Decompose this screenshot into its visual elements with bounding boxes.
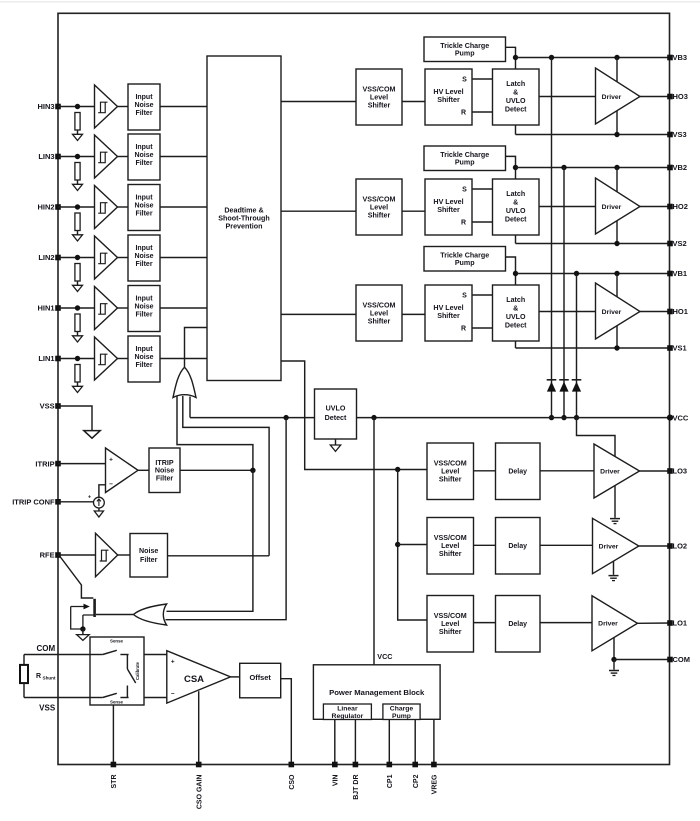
- svg-text:COM: COM: [37, 644, 56, 653]
- svg-text:Level: Level: [441, 542, 459, 550]
- wire LO bus to LO2 shifter: [398, 544, 427, 546]
- pin LIN2: [55, 255, 61, 261]
- svg-text:VIN: VIN: [332, 775, 339, 787]
- ground arrow HIN1: [73, 336, 83, 342]
- ground arrow HIN2: [73, 235, 83, 241]
- wire S ch2: [472, 188, 493, 190]
- svg-text:Input: Input: [135, 144, 153, 151]
- svg-text:CP2: CP2: [413, 774, 420, 788]
- pin COM right: [667, 657, 673, 663]
- wire resistor to arrow HIN2: [77, 231, 79, 235]
- svg-text:LO3: LO3: [673, 467, 688, 476]
- wire bootstrap line ch3: [551, 58, 553, 418]
- svg-text:Filter: Filter: [135, 362, 152, 369]
- wire VCC to power block: [373, 418, 375, 665]
- ground arrow LIN2: [73, 285, 83, 291]
- wire VSS pin: [58, 406, 92, 431]
- pin VB1: [667, 271, 673, 277]
- wire delay to driver LO2: [540, 544, 593, 546]
- svg-text:VCC: VCC: [377, 652, 392, 661]
- svg-text:UVLO: UVLO: [326, 405, 346, 413]
- deadtime and shoot-through prevention block: [207, 56, 281, 381]
- vss/com level shifter HS ch3: [356, 69, 402, 125]
- svg-text:Filter: Filter: [135, 160, 152, 167]
- svg-text:UVLO: UVLO: [506, 97, 526, 105]
- linear regulator block: [323, 704, 371, 720]
- offset block: [240, 663, 281, 698]
- ground arrow LIN1: [73, 386, 83, 392]
- wire LO1 driver to COM: [613, 638, 615, 660]
- node HIN2 junction: [75, 204, 80, 209]
- svg-text:ITRIP CONF: ITRIP CONF: [12, 498, 55, 507]
- svg-text:−: −: [109, 481, 113, 488]
- wire resistor to arrow LIN2: [77, 281, 79, 285]
- wire driver to pin LO2: [639, 545, 670, 547]
- svg-text:VB2: VB2: [673, 163, 688, 172]
- svg-text:Charge: Charge: [390, 705, 414, 712]
- faint page edge line: [0, 1, 700, 3]
- vss/com level shifter LO3: [427, 443, 474, 500]
- node bootstrap diode on VCC ch2: [561, 415, 566, 420]
- svg-text:RFE: RFE: [40, 551, 55, 560]
- driver HS ch3: [596, 68, 641, 124]
- wire trickle pump output ch1: [506, 257, 516, 285]
- node trickle/latch on VB2: [513, 165, 518, 170]
- svg-text:BJT DR: BJT DR: [353, 775, 360, 800]
- svg-text:HO1: HO1: [673, 307, 688, 316]
- pin RFE: [55, 552, 61, 558]
- latch and uvlo detect ch1: [493, 285, 540, 341]
- driver HS ch2: [596, 178, 641, 234]
- wire sense block to STR: [112, 705, 114, 765]
- svg-text:Shifter: Shifter: [437, 96, 460, 104]
- node diode line on VB2: [561, 165, 566, 170]
- node driver return on VS1: [614, 345, 619, 350]
- svg-text:Pump: Pump: [455, 158, 475, 166]
- wire LIN3 pin to buffer: [58, 156, 95, 158]
- node diode line on VB3: [549, 55, 554, 60]
- wire trickle pump output ch3: [506, 47, 516, 69]
- node LO bus top: [395, 467, 400, 472]
- net VSS sense wire: [24, 697, 90, 699]
- svg-text:Driver: Driver: [599, 543, 619, 550]
- svg-text:Pump: Pump: [455, 259, 475, 267]
- wire S ch3: [472, 78, 493, 80]
- wire S ch1: [472, 294, 493, 296]
- wire rfe-filter to or1: [183, 396, 269, 556]
- schmitt buffer HIN2: [95, 186, 118, 229]
- calibrate switch: [126, 655, 128, 670]
- IC boundary box: [58, 13, 670, 764]
- svg-text:Noise: Noise: [134, 102, 153, 109]
- svg-text:Shifter: Shifter: [437, 206, 460, 214]
- node mosfet source: [80, 626, 85, 631]
- node HIN1 junction: [75, 305, 80, 310]
- rfe noise filter block: [130, 534, 168, 578]
- node driver supply on VB1: [614, 271, 619, 276]
- node LIN1 junction: [75, 356, 80, 361]
- svg-text:Driver: Driver: [602, 309, 622, 316]
- resistor pulldown LIN2: [75, 264, 80, 282]
- node LIN3 junction: [75, 154, 80, 159]
- wire driver to pin LO3: [640, 470, 671, 472]
- vss/com level shifter LO2: [427, 518, 474, 575]
- wire filter to deadtime HIN1: [160, 307, 207, 309]
- schmitt buffer LIN1: [95, 337, 118, 380]
- wire trickle pump output ch2: [506, 156, 516, 179]
- svg-text:HO3: HO3: [673, 92, 688, 101]
- bootstrap diode ch1: [572, 379, 582, 381]
- wire LIN2 pin to buffer: [58, 257, 95, 259]
- switch sense bottom: [90, 697, 103, 699]
- vss/com level shifter LO1: [427, 596, 474, 653]
- svg-text:&: &: [513, 199, 518, 207]
- svg-text:LIN2: LIN2: [38, 253, 54, 262]
- svg-text:HIN3: HIN3: [38, 102, 55, 111]
- svg-text:Filter: Filter: [135, 211, 152, 218]
- pin LO2: [667, 543, 673, 549]
- switch sense top: [90, 654, 103, 656]
- op-amp CSA: [167, 651, 231, 703]
- wire driver supply ch2: [616, 168, 618, 244]
- wire sense to csa minus: [144, 697, 167, 699]
- svg-text:VB3: VB3: [673, 53, 688, 62]
- svg-text:Latch: Latch: [506, 80, 525, 88]
- wire driver supply ch1: [616, 274, 618, 349]
- delay block LO2: [496, 518, 541, 575]
- svg-text:UVLO: UVLO: [506, 207, 526, 215]
- svg-text:Linear: Linear: [337, 705, 358, 712]
- svg-text:R: R: [36, 673, 41, 680]
- wire latch bottom to VS3: [515, 125, 517, 135]
- svg-text:+: +: [171, 659, 175, 666]
- svg-text:LIN3: LIN3: [38, 152, 54, 161]
- wire resistor to arrow HIN1: [77, 332, 79, 336]
- wire source to comparator minus: [99, 485, 106, 497]
- driver LO1: [592, 596, 638, 651]
- svg-text:HIN2: HIN2: [38, 203, 55, 212]
- wire VCC to LO3 driver: [577, 418, 616, 457]
- wire filter to deadtime LIN2: [160, 257, 207, 259]
- svg-text:CSA: CSA: [184, 674, 204, 685]
- svg-text:+: +: [88, 495, 91, 501]
- net VB3 rail: [516, 57, 671, 59]
- wire shifter to delay LO2: [474, 544, 496, 546]
- current source itrip conf: [94, 497, 105, 508]
- node diode line on VB1: [574, 271, 579, 276]
- svg-text:Driver: Driver: [602, 204, 622, 211]
- svg-text:Noise: Noise: [155, 467, 174, 475]
- svg-text:Filter: Filter: [140, 556, 158, 564]
- svg-text:Level: Level: [370, 93, 388, 101]
- trickle charge pump ch3: [424, 37, 506, 62]
- svg-text:Shifter: Shifter: [437, 312, 460, 320]
- wire filter to deadtime HIN2: [160, 206, 207, 208]
- svg-text:Filter: Filter: [135, 312, 152, 319]
- wire resistor to arrow HIN3: [77, 130, 79, 134]
- svg-text:VS2: VS2: [673, 239, 687, 248]
- node LO bus mid: [395, 542, 400, 547]
- wire latch bottom to VS1: [515, 341, 517, 348]
- svg-text:S: S: [462, 293, 467, 300]
- wire HIN1 pin to buffer: [58, 307, 95, 309]
- node trickle/latch on VB3: [513, 55, 518, 60]
- net VB2 rail: [516, 167, 671, 169]
- wire csa gain tap: [198, 691, 200, 764]
- wire sense to csa plus: [144, 654, 167, 656]
- wire source to ground: [98, 508, 100, 511]
- svg-text:Sense: Sense: [110, 699, 123, 704]
- svg-text:Detect: Detect: [505, 106, 527, 114]
- pin ITRIP CONF: [55, 499, 61, 505]
- pin VS2: [667, 241, 673, 247]
- svg-text:Noise: Noise: [134, 253, 153, 260]
- pin LO1: [667, 620, 673, 626]
- uvlo detect block: [315, 389, 357, 439]
- net VS1 rail: [516, 347, 671, 349]
- hv level shifter ch2: [425, 179, 472, 235]
- pin CSO: [289, 762, 295, 768]
- svg-text:VSS/COM: VSS/COM: [434, 612, 467, 620]
- wire deadtime to level shifter ch1: [281, 313, 356, 315]
- svg-text:Shunt: Shunt: [43, 676, 56, 681]
- pin LIN3: [55, 154, 61, 160]
- svg-text:Input: Input: [135, 195, 153, 202]
- resistor pulldown LIN3: [75, 163, 80, 181]
- latch and uvlo detect ch3: [493, 69, 540, 125]
- wire driver to pin LO1: [638, 622, 671, 624]
- svg-text:VSS/COM: VSS/COM: [434, 534, 467, 542]
- schmitt buffer LIN3: [95, 135, 118, 178]
- input noise filter LIN3: [128, 134, 160, 180]
- svg-text:&: &: [513, 305, 518, 313]
- svg-text:Noise: Noise: [134, 203, 153, 210]
- or-gate U2 rfe pulldown (points left): [134, 604, 167, 625]
- schmitt buffer HIN1: [95, 287, 118, 330]
- svg-text:VS3: VS3: [673, 130, 687, 139]
- latch and uvlo detect ch2: [493, 179, 540, 235]
- net VS3 rail: [516, 134, 671, 136]
- svg-text:−: −: [171, 691, 175, 698]
- svg-text:Prevention: Prevention: [226, 222, 263, 230]
- ground arrow VSS: [84, 431, 100, 439]
- driver LO2: [593, 518, 639, 573]
- wire driver supply ch3: [616, 58, 618, 135]
- wire VREG drop: [433, 720, 435, 765]
- wire uvlo to or1: [189, 397, 191, 418]
- svg-text:STR: STR: [111, 775, 118, 789]
- svg-text:Filter: Filter: [135, 261, 152, 268]
- node driver return on VS2: [614, 241, 619, 246]
- svg-text:Shifter: Shifter: [368, 317, 391, 325]
- ground arrow HIN3: [73, 134, 83, 140]
- hv level shifter ch3: [425, 69, 472, 125]
- svg-text:Detect: Detect: [505, 216, 527, 224]
- wire deadtime to level shifter ch3: [281, 101, 356, 103]
- resistor pulldown LIN1: [75, 365, 80, 383]
- svg-text:Latch: Latch: [506, 190, 525, 198]
- resistor pulldown HIN1: [75, 314, 80, 332]
- node driver return on VS3: [614, 132, 619, 137]
- resistor pulldown HIN3: [75, 113, 80, 131]
- pin VCC: [667, 415, 673, 421]
- wire R ch1: [472, 327, 493, 329]
- svg-text:Delay: Delay: [508, 469, 527, 476]
- wire offset output to CSO: [281, 679, 292, 765]
- pin HO2: [667, 204, 673, 210]
- svg-text:Level: Level: [441, 620, 459, 628]
- node LIN2 junction: [75, 255, 80, 260]
- input noise filter HIN3: [128, 84, 160, 130]
- wire filter to deadtime HIN3: [160, 106, 207, 108]
- pin VB2: [667, 165, 673, 171]
- svg-text:Level: Level: [370, 309, 388, 317]
- driver HS ch1: [596, 283, 641, 339]
- net VB1 rail: [516, 273, 671, 275]
- wire HIN3 pin to buffer: [58, 106, 95, 108]
- svg-text:Driver: Driver: [598, 621, 618, 628]
- svg-text:ITRIP: ITRIP: [35, 459, 54, 468]
- svg-text:Latch: Latch: [506, 296, 525, 304]
- svg-text:Pump: Pump: [392, 713, 411, 720]
- svg-text:ITRIP: ITRIP: [155, 459, 173, 467]
- wire shifter to delay LO1: [474, 622, 496, 624]
- svg-text:R: R: [461, 110, 466, 117]
- svg-text:HV Level: HV Level: [433, 88, 463, 96]
- wire resistor to arrow LIN1: [77, 382, 79, 386]
- wire LO2 driver to ground: [613, 561, 615, 575]
- pin CP2: [412, 762, 418, 768]
- wire buffer to filter LIN1: [118, 358, 129, 360]
- ground arrow uvlo: [330, 445, 340, 451]
- ground arrow itrip conf: [94, 511, 103, 517]
- wire level shifter to hv shifter ch2: [402, 210, 425, 212]
- wire LO3 driver to ground: [614, 486, 616, 518]
- svg-text:Delay: Delay: [508, 621, 527, 628]
- wire RFE to buffer: [58, 554, 96, 556]
- svg-text:Filter: Filter: [156, 475, 174, 483]
- schmitt buffer RFE: [96, 533, 118, 576]
- pin HIN3: [55, 104, 61, 110]
- net VS2 rail: [516, 243, 671, 245]
- wire LO bus down: [398, 470, 427, 621]
- delay block LO3: [496, 443, 541, 500]
- trickle charge pump ch2: [424, 146, 506, 171]
- net VCC rail: [190, 417, 670, 419]
- svg-text:+: +: [109, 457, 113, 464]
- wire COM to ground: [613, 660, 615, 670]
- wire latch to driver ch2: [539, 206, 596, 208]
- wire buffer to rfe filter: [118, 554, 130, 556]
- ground arrow LIN3: [73, 184, 83, 190]
- svg-text:VCC: VCC: [673, 413, 689, 422]
- svg-text:Shoot-Through: Shoot-Through: [218, 214, 270, 222]
- wire resistor to arrow LIN3: [77, 180, 79, 184]
- svg-text:Delay: Delay: [508, 543, 527, 550]
- svg-text:Power Management Block: Power Management Block: [329, 688, 425, 697]
- wire rfe filter output: [168, 555, 270, 557]
- svg-text:LO1: LO1: [673, 619, 688, 628]
- wire LIN1 pin to buffer: [58, 358, 95, 360]
- bootstrap diode ch2: [559, 379, 569, 381]
- svg-text:Shifter: Shifter: [439, 476, 462, 484]
- itrip noise filter block: [149, 448, 180, 493]
- svg-text:S: S: [462, 187, 467, 194]
- node regulator drop on VCC: [371, 415, 376, 420]
- node LO1 return on COM: [611, 657, 616, 662]
- bootstrap diode ch3: [547, 379, 557, 381]
- node driver supply on VB3: [614, 55, 619, 60]
- power management block: [313, 665, 440, 720]
- pin HO1: [667, 309, 673, 315]
- svg-text:VSS/COM: VSS/COM: [434, 460, 467, 468]
- wire or2 output to mosfet: [96, 614, 134, 616]
- pin CP1: [387, 762, 393, 768]
- pin VS1: [667, 345, 673, 351]
- wire driver to HO2: [640, 206, 670, 208]
- ground COM: [609, 670, 619, 672]
- svg-text:HV Level: HV Level: [433, 304, 463, 312]
- svg-text:VSS/COM: VSS/COM: [363, 195, 396, 203]
- svg-text:LIN1: LIN1: [38, 354, 54, 363]
- resistor R_Shunt: [23, 655, 25, 665]
- wire ITRIP to comparator: [58, 463, 106, 465]
- svg-text:Noise: Noise: [134, 152, 153, 159]
- pin STR: [111, 762, 117, 768]
- svg-text:R: R: [461, 220, 466, 227]
- pin VIN: [332, 762, 338, 768]
- svg-text:CSO GAIN: CSO GAIN: [196, 775, 203, 810]
- node bootstrap diode on VCC ch1: [574, 415, 579, 420]
- input noise filter LIN2: [128, 235, 160, 281]
- svg-text:Level: Level: [370, 203, 388, 211]
- svg-text:LO2: LO2: [673, 542, 688, 551]
- svg-text:VSS: VSS: [39, 704, 56, 713]
- wire level shifter to hv shifter ch3: [402, 101, 425, 103]
- wire VIN drop: [334, 720, 336, 765]
- wire delay to driver LO1: [540, 622, 592, 624]
- wire latch to driver ch3: [539, 96, 596, 98]
- wire R ch2: [472, 221, 493, 223]
- svg-text:Calibrate: Calibrate: [135, 661, 140, 680]
- pin BJT DR: [353, 762, 359, 768]
- wire csa to offset: [231, 676, 240, 678]
- pin HIN2: [55, 204, 61, 210]
- delay block LO1: [496, 596, 541, 653]
- vss/com level shifter HS ch2: [356, 179, 402, 235]
- svg-text:Regulator: Regulator: [332, 713, 364, 720]
- net COM rail: [614, 659, 670, 661]
- svg-text:Driver: Driver: [602, 94, 622, 101]
- svg-text:Input: Input: [135, 296, 153, 303]
- svg-text:VB1: VB1: [673, 269, 688, 278]
- svg-text:Noise: Noise: [134, 304, 153, 311]
- vss/com level shifter HS ch1: [356, 285, 402, 341]
- wire buffer to filter LIN2: [118, 257, 129, 259]
- pin VS3: [667, 132, 673, 138]
- pin LIN1: [55, 356, 61, 362]
- pin VB3: [667, 55, 673, 61]
- pin HO3: [667, 94, 673, 100]
- wire itrip-filter to or1: [177, 396, 253, 470]
- wire uvlo to arrow: [335, 439, 337, 445]
- svg-text:Noise: Noise: [139, 547, 158, 555]
- wire driver to HO3: [640, 96, 670, 98]
- resistor pulldown HIN2: [75, 213, 80, 231]
- svg-text:Detect: Detect: [325, 414, 347, 422]
- wire shifter to delay LO3: [474, 470, 496, 472]
- input noise filter LIN1: [128, 336, 160, 382]
